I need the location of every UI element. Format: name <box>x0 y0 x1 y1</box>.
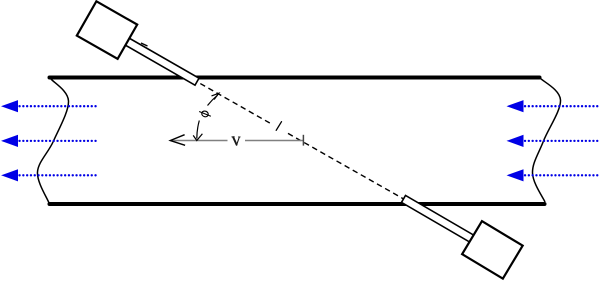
transducer box bottom <box>462 221 523 278</box>
velocity vector arrowhead <box>170 135 185 146</box>
ultrasonic beam path (dashed), lower segment <box>288 133 404 199</box>
flow arrow left 2 <box>3 136 97 147</box>
pipe-break wavy line left <box>37 79 68 203</box>
flow arrow right 2 <box>508 136 600 147</box>
label v <box>232 137 240 145</box>
flow arrow left 1 <box>3 101 97 112</box>
velocity end tick <box>302 135 304 146</box>
arc arrow top <box>212 93 219 99</box>
pipe bottom wall <box>50 202 545 206</box>
velocity vector v shaft <box>172 140 303 142</box>
label phi <box>198 109 212 119</box>
flow arrow right 1 <box>508 101 600 112</box>
arc arrow bottom <box>193 134 202 141</box>
pipe-break wavy line right <box>532 78 560 202</box>
transducer stem top <box>125 38 199 85</box>
pipe top wall <box>50 76 540 80</box>
transducer box top <box>77 1 137 59</box>
flow arrow left 3 <box>3 170 97 181</box>
ultrasonic beam path (dashed), upper segment <box>197 82 272 124</box>
flow arrow right 3 <box>508 170 600 181</box>
stem arrow barb top <box>141 43 148 46</box>
transducer stem bottom <box>401 195 474 242</box>
angle arc phi <box>197 121 200 139</box>
label l on beam <box>276 122 281 131</box>
